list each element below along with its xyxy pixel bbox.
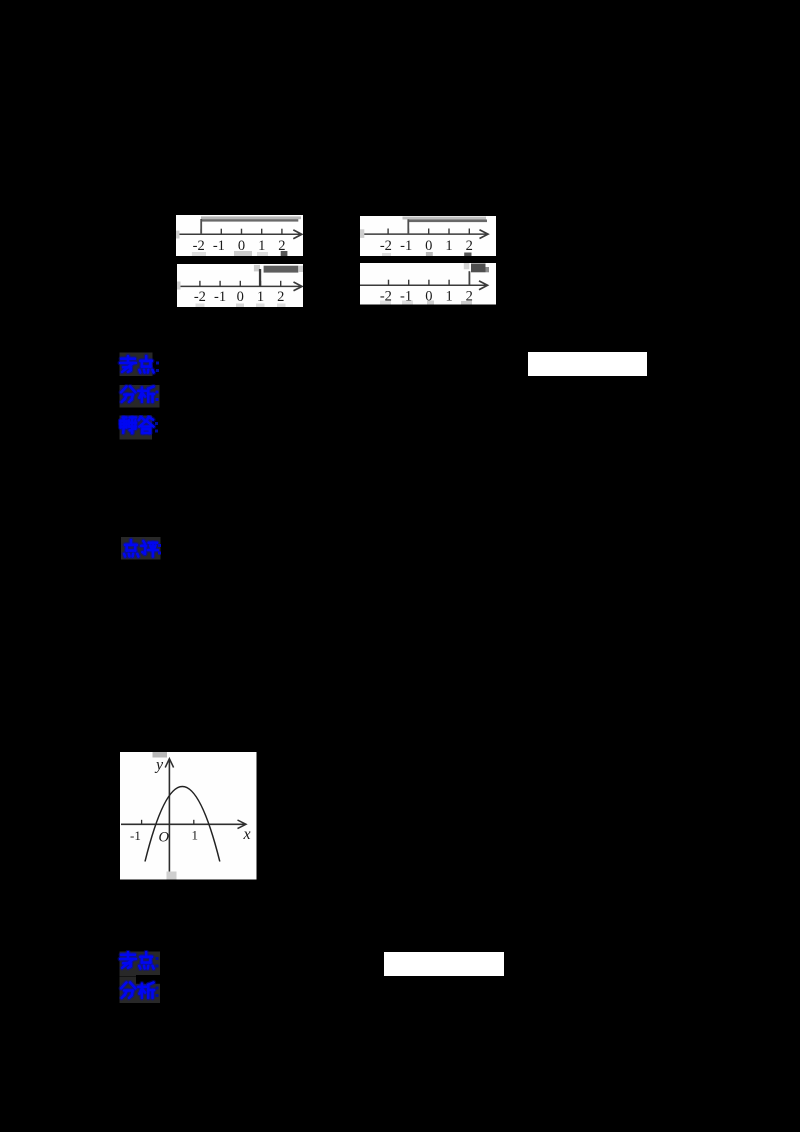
tick marks <box>388 280 469 286</box>
axis arrowhead <box>293 230 302 239</box>
solution ray <box>402 216 487 234</box>
svg-text:-1: -1 <box>214 288 226 304</box>
svg-text:-2: -2 <box>193 238 205 254</box>
axis line <box>176 233 300 235</box>
label fenxi-2 <box>117 975 165 1005</box>
axis line <box>360 233 487 235</box>
axis line <box>360 284 486 286</box>
x-axis <box>121 823 245 825</box>
label fenxi-1 <box>117 384 165 410</box>
answer highlight box 2 <box>384 952 504 976</box>
svg-text:1: 1 <box>256 288 263 304</box>
answer highlight box 1 <box>528 352 648 376</box>
svg-text:-1: -1 <box>400 238 412 254</box>
tick at 1 <box>193 820 195 825</box>
parabola graph figure <box>120 752 257 880</box>
solution ray <box>463 263 488 285</box>
number line option C <box>177 264 303 308</box>
svg-text:-2: -2 <box>193 288 205 304</box>
y-axis <box>168 761 170 875</box>
svg-text:2: 2 <box>465 238 472 254</box>
label kaodian-1 <box>117 352 165 378</box>
svg-text:1: 1 <box>445 289 452 305</box>
solution ray <box>200 216 301 234</box>
svg-text:-1: -1 <box>213 238 225 254</box>
number labels -2 -1 0 1 2 <box>193 238 286 254</box>
svg-text:0: 0 <box>425 238 432 254</box>
label kaodian-2 <box>117 950 165 978</box>
number line option B <box>360 216 497 256</box>
svg-text:-1: -1 <box>130 828 141 843</box>
label dianping-1 <box>118 536 166 562</box>
svg-text:O: O <box>159 830 170 846</box>
axis arrowhead <box>479 229 488 238</box>
svg-text:1: 1 <box>258 238 265 254</box>
number labels -2 -1 0 1 2 <box>193 288 283 304</box>
tick marks <box>199 280 280 286</box>
number line option D <box>360 263 497 305</box>
number line option A <box>176 215 303 256</box>
artifact squares <box>153 752 168 758</box>
small gray artifact squares <box>177 281 286 307</box>
small gray artifact squares <box>176 231 287 256</box>
number labels -2 -1 0 1 2 <box>379 238 472 254</box>
tick at -1 <box>141 820 143 825</box>
axis line <box>177 285 301 287</box>
tick marks <box>201 229 282 235</box>
label jieda-1 <box>117 415 165 441</box>
axis arrowhead <box>293 282 302 291</box>
svg-text:-2: -2 <box>379 238 391 254</box>
svg-text:1: 1 <box>445 238 452 254</box>
tick marks <box>388 228 469 234</box>
svg-text:x: x <box>243 826 251 843</box>
small gray artifact squares <box>360 229 472 256</box>
number labels -2 -1 0 1 2 <box>379 289 472 305</box>
solution ray <box>253 264 302 286</box>
svg-text:0: 0 <box>236 288 243 304</box>
axis arrowhead <box>479 281 488 290</box>
svg-text:2: 2 <box>277 288 284 304</box>
svg-text:1: 1 <box>192 828 199 843</box>
svg-text:y: y <box>154 757 164 774</box>
small gray artifact squares <box>380 301 472 305</box>
parabola curve <box>145 787 220 862</box>
